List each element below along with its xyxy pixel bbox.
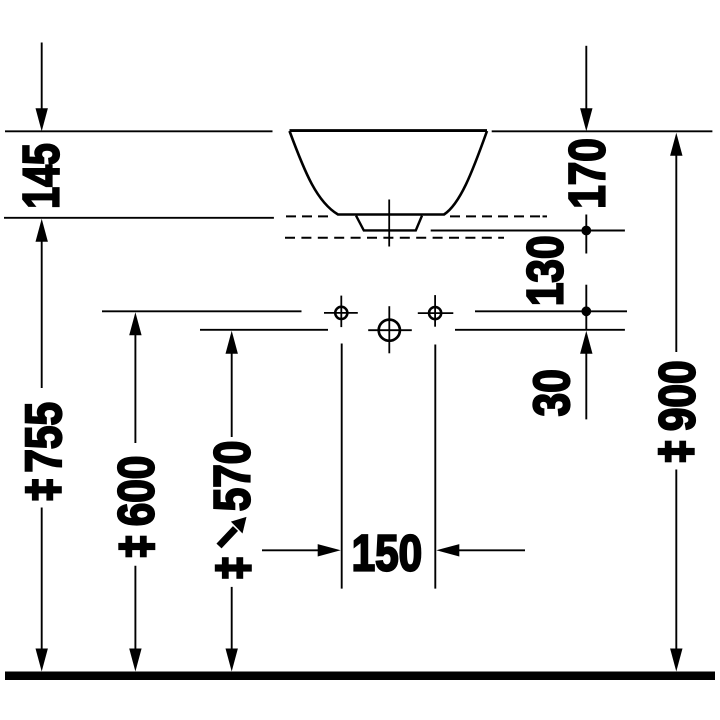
svg-text:30: 30	[523, 369, 580, 416]
svg-text:755: 755	[15, 402, 72, 473]
svg-text:900: 900	[649, 360, 706, 431]
svg-text:170: 170	[559, 138, 616, 209]
svg-text:130: 130	[517, 235, 574, 306]
svg-text:600: 600	[108, 456, 165, 527]
svg-text:150: 150	[352, 525, 423, 582]
svg-text:570: 570	[204, 441, 261, 512]
svg-text:145: 145	[12, 143, 69, 209]
